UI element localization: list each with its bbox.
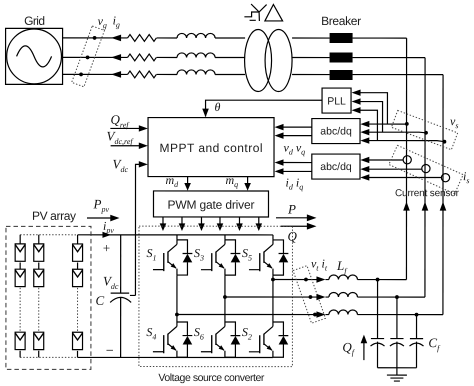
svg-text:Current sensor: Current sensor	[395, 188, 460, 199]
svg-text:PV array: PV array	[32, 209, 76, 223]
svg-text:C: C	[95, 293, 104, 308]
svg-text:P: P	[287, 202, 296, 217]
svg-text:abc/dq: abc/dq	[320, 161, 352, 173]
svg-text:Voltage source converter: Voltage source converter	[158, 372, 265, 384]
svg-text:θ: θ	[215, 100, 221, 114]
svg-text:Breaker: Breaker	[321, 14, 361, 28]
svg-text:abc/dq: abc/dq	[320, 126, 352, 138]
svg-text:+: +	[102, 240, 111, 255]
svg-text:Grid: Grid	[24, 14, 45, 28]
svg-text:MPPT and control: MPPT and control	[160, 141, 263, 155]
svg-text:PLL: PLL	[327, 96, 346, 108]
svg-text:−: −	[105, 344, 114, 359]
svg-text:PWM gate driver: PWM gate driver	[167, 198, 254, 212]
